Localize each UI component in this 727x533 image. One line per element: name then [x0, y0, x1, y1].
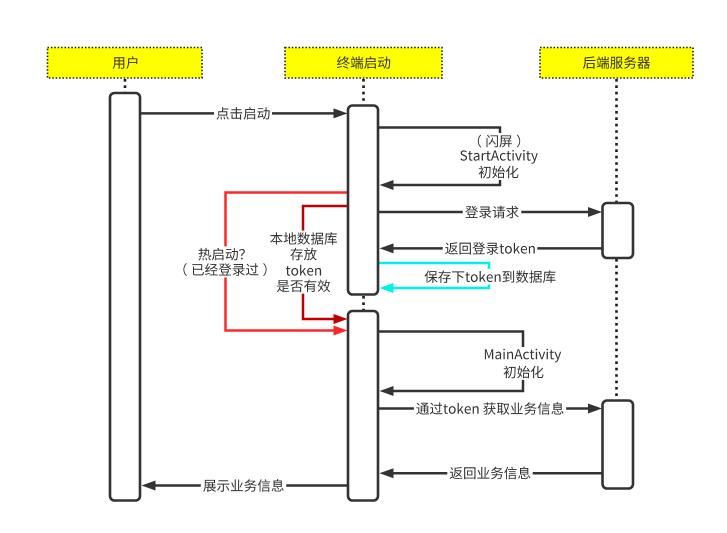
arrowhead: red outer loop	[334, 326, 348, 336]
label: MainActivity	[482, 347, 563, 364]
actor box: user 用户	[48, 48, 203, 79]
label: 本地数据库	[268, 231, 340, 247]
label: 展示业务信息	[201, 478, 286, 494]
arrowhead: show business info	[142, 481, 156, 491]
arrowhead: MainActivity return	[380, 386, 394, 396]
label background: hot-start text block	[181, 246, 269, 277]
label: 登录请求	[463, 204, 522, 220]
lifeline: terminal dotted middle	[362, 296, 365, 310]
label background: MainActivity text block	[482, 347, 563, 380]
wire: cyan save-token self loop	[379, 263, 489, 288]
activation bar: terminal second	[348, 311, 378, 501]
wire: self-message StartActivity loop	[379, 128, 500, 186]
arrowhead: login request	[588, 207, 602, 217]
label: （闪屏）	[475, 133, 522, 149]
arrowhead: return login token	[380, 243, 394, 253]
label: 存放	[288, 246, 319, 262]
activation bar: server second	[603, 401, 634, 489]
label: 点击启动	[214, 106, 272, 122]
lifeline: terminal dotted top	[362, 79, 365, 104]
activation bar: server first	[603, 203, 634, 258]
wire: dark-red local-db check loop	[303, 206, 348, 319]
label background: local-db text block	[268, 231, 340, 294]
wire: message click-start line	[141, 112, 335, 115]
lifeline: server dotted middle	[615, 259, 618, 399]
activation bar: user	[110, 93, 140, 501]
arrowhead: cyan save token	[380, 283, 394, 293]
label: 初始化 (StartActivity)	[476, 164, 521, 180]
label: 保存下token到数据库	[422, 269, 558, 285]
activation bar: terminal first	[348, 106, 378, 295]
wire: red hot-start outer loop	[226, 193, 349, 331]
actor box: server 后端服务器	[540, 48, 693, 79]
wire: get business info via token line	[379, 407, 590, 410]
label: 返回业务信息	[447, 465, 532, 481]
wire: show business info line	[155, 484, 348, 487]
label: 返回登录token	[443, 241, 538, 257]
label: （已经登录过）	[181, 262, 269, 278]
wire: return business info line	[393, 472, 603, 475]
label: token	[283, 263, 323, 277]
wire: login request line	[379, 211, 590, 214]
label: 热启动？	[196, 246, 247, 262]
arrowhead: return business info	[380, 468, 394, 478]
arrowhead: dark-red loop	[334, 314, 348, 324]
arrowhead: get business info	[588, 404, 602, 414]
arrowhead: StartActivity return	[380, 180, 394, 190]
label background: StartActivity text block	[458, 133, 541, 180]
lifeline: server dotted top	[615, 79, 618, 202]
label: 初始化 (MainActivity)	[501, 364, 546, 380]
wire: return login token line	[393, 247, 603, 250]
wire: self-message MainActivity loop	[379, 332, 523, 392]
arrowhead: click-start	[334, 108, 348, 118]
actor box: terminal 终端启动	[285, 48, 442, 79]
label: StartActivity	[458, 148, 541, 165]
label: 是否有效	[274, 278, 332, 294]
label: 通过token 获取业务信息	[414, 401, 566, 417]
lifeline: user dotted	[124, 79, 127, 92]
